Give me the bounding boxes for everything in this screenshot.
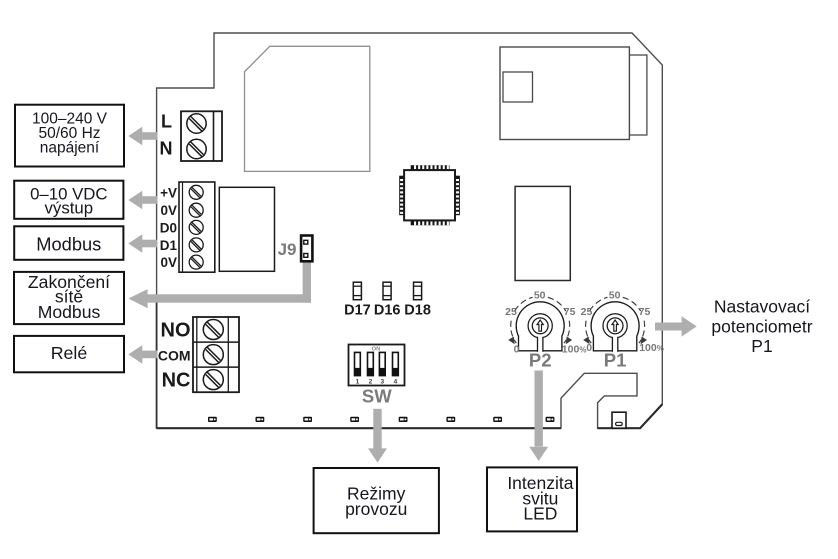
svg-text:provozu: provozu	[345, 499, 407, 519]
connector block X1	[219, 187, 274, 271]
IC U1 QFP	[399, 165, 460, 225]
svg-text:Relé: Relé	[51, 343, 88, 363]
mid rectangle component	[515, 186, 570, 280]
svg-text:50: 50	[534, 290, 546, 302]
arrow to napajeni box	[128, 127, 157, 146]
screw 0V	[189, 203, 203, 217]
screw L	[187, 114, 206, 133]
svg-text:D16: D16	[374, 302, 401, 318]
PCB board outline	[157, 33, 663, 428]
relay terminal NO/COM/NC	[193, 317, 239, 392]
svg-text:P2: P2	[529, 350, 552, 371]
screw +V	[189, 185, 203, 199]
DIP slider 4	[393, 352, 399, 385]
terminal block L/N	[181, 111, 222, 161]
svg-text:4: 4	[394, 379, 398, 386]
svg-text:P1: P1	[751, 336, 772, 356]
svg-text:0: 0	[514, 343, 520, 355]
screw COM	[203, 345, 223, 365]
svg-text:Modbus: Modbus	[38, 302, 101, 322]
arrow to Modbus box	[128, 234, 157, 253]
DIP slider 3	[379, 352, 385, 385]
label box: Rezimy provozu	[314, 468, 439, 533]
potentiometer P2	[508, 297, 572, 351]
screw D1	[189, 238, 203, 252]
svg-text:0V: 0V	[160, 255, 177, 270]
DIP slider 2	[368, 352, 374, 385]
label box: Zakonceni site Modbus	[14, 272, 124, 324]
svg-text:0: 0	[586, 342, 592, 354]
svg-text:75: 75	[564, 306, 576, 318]
DIP switch SW	[349, 345, 405, 386]
screw NO	[203, 320, 223, 340]
arrow to vystup box	[128, 191, 157, 210]
bottom solder pads	[208, 417, 554, 422]
svg-text:D18: D18	[404, 302, 431, 318]
svg-text:výstup: výstup	[45, 199, 94, 218]
screw NC	[203, 370, 223, 390]
svg-text:75: 75	[639, 306, 651, 318]
svg-text:100%: 100%	[562, 343, 587, 355]
svg-text:NO: NO	[161, 320, 191, 342]
arrow from P2 down	[529, 371, 548, 461]
svg-text:+V: +V	[160, 185, 177, 200]
screw D0	[189, 220, 203, 234]
svg-text:D1: D1	[160, 238, 178, 253]
svg-text:50: 50	[609, 290, 621, 302]
component at bottom edge (LED holder)	[612, 412, 626, 428]
screw N	[187, 139, 206, 158]
svg-text:1: 1	[356, 379, 360, 386]
relay K1 top-right	[500, 47, 647, 140]
svg-text:Nastavovací: Nastavovací	[714, 296, 810, 316]
svg-text:LED: LED	[523, 504, 557, 524]
label: Nastavovaci potenciometr P1	[711, 296, 812, 356]
label box: Intenzita svitu LED	[487, 467, 577, 531]
label box: 0-10 VDC vystup	[14, 181, 123, 219]
label box: Modbus	[14, 226, 123, 259]
svg-text:J9: J9	[278, 240, 297, 259]
label box: 100-240V napajeni	[15, 105, 124, 167]
svg-text:COM: COM	[158, 347, 191, 363]
svg-text:25: 25	[505, 306, 517, 318]
svg-text:potenciometr: potenciometr	[711, 316, 812, 336]
potentiometer P1	[583, 297, 647, 351]
svg-text:D17: D17	[344, 302, 371, 318]
svg-text:napájení: napájení	[40, 140, 100, 157]
svg-text:D0: D0	[160, 220, 177, 235]
svg-text:SW: SW	[362, 385, 392, 406]
screw 0V2	[189, 255, 203, 269]
svg-text:NC: NC	[162, 370, 191, 392]
DIP slider 1	[355, 352, 361, 385]
P2 scale labels	[505, 290, 586, 356]
arrow from P1 right	[655, 316, 697, 336]
svg-text:N: N	[160, 138, 173, 158]
svg-text:P1: P1	[604, 350, 627, 371]
jumper J9	[301, 236, 312, 262]
terminal block 5-pin	[179, 182, 215, 272]
arrow from SW down	[368, 409, 387, 463]
svg-text:ON: ON	[372, 346, 381, 352]
svg-text:Modbus: Modbus	[36, 233, 101, 254]
arrow to Rele box	[128, 345, 157, 364]
wire from J9 to Modbus termination arrow	[128, 259, 311, 308]
P1 scale labels	[581, 290, 664, 354]
LED D18	[414, 282, 422, 300]
label box: Rele	[14, 336, 124, 372]
transformer T1	[245, 46, 370, 171]
LED D17	[353, 282, 361, 300]
svg-text:25: 25	[581, 306, 593, 318]
svg-text:0V: 0V	[160, 203, 177, 218]
svg-text:100%: 100%	[639, 342, 664, 354]
LED D16	[383, 282, 391, 300]
svg-text:L: L	[161, 111, 172, 131]
